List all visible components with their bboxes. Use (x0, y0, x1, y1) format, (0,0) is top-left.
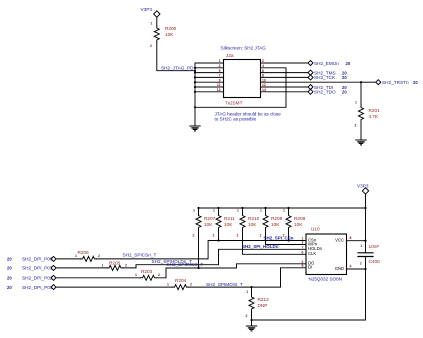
wire R211 down to CSn line (218, 230, 220, 241)
svg-text:20: 20 (7, 276, 12, 281)
svg-text:10K: 10K (248, 222, 257, 227)
net label SH2_SPIMISO_T (167, 262, 204, 267)
node GND joins cap drop (364, 268, 366, 270)
node MOSI to R212 (250, 286, 252, 288)
node ground return joins R212 (250, 319, 252, 321)
svg-text:13: 13 (217, 88, 221, 92)
port SH2_TDO (308, 89, 347, 94)
svg-text:SH2_DPI_P02: SH2_DPI_P02 (22, 276, 53, 281)
IC U10 SPI flash (306, 227, 347, 282)
power symbol V3P3 (bottom) (357, 184, 369, 195)
port SH2_DPI_P01 (7, 265, 56, 270)
node bus row3 (194, 72, 196, 74)
svg-text:SH2_SPIMOSI_T: SH2_SPIMOSI_T (206, 282, 243, 287)
svg-text:2: 2 (237, 233, 239, 237)
resistor R204 (series MOSI) (167, 278, 192, 290)
ground (SPI) (246, 326, 257, 331)
resistor R205 (series HOLDn) (102, 261, 128, 271)
svg-text:2: 2 (158, 273, 160, 277)
wire ground return to SPI ground (252, 269, 366, 320)
node bus row5 (194, 81, 196, 83)
svg-text:R209: R209 (294, 216, 306, 221)
wire V3P3 down to VCC pin (365, 194, 367, 241)
ground (TRSTn) (355, 140, 366, 145)
svg-text:SH2_SPICSn_T: SH2_SPICSn_T (123, 253, 157, 258)
port SH2_TCK (308, 75, 347, 80)
svg-text:1: 1 (213, 209, 215, 213)
svg-text:2: 2 (193, 233, 195, 237)
wire bus to ground (194, 107, 196, 126)
svg-text:3: 3 (219, 64, 221, 68)
svg-text:1: 1 (102, 263, 104, 267)
resistor R203 (series MISO) (135, 269, 160, 281)
wire J2a pin3 stub (195, 67, 224, 69)
svg-text:2: 2 (360, 261, 362, 265)
svg-text:9: 9 (219, 78, 221, 82)
svg-text:1: 1 (283, 209, 285, 213)
svg-text:R208: R208 (271, 216, 283, 221)
power symbol V3P3 (top) (141, 7, 161, 17)
svg-text:7: 7 (302, 246, 304, 250)
svg-text:R206: R206 (78, 250, 90, 255)
wire pin8 to TCK port (261, 76, 309, 78)
svg-text:20: 20 (7, 257, 12, 262)
svg-text:SH2_TRSTn: SH2_TRSTn (382, 80, 409, 85)
svg-text:1: 1 (193, 209, 195, 213)
svg-text:6: 6 (302, 251, 304, 255)
svg-text:10K: 10K (165, 32, 174, 37)
svg-text:20: 20 (346, 61, 351, 66)
pin numbers U10 (302, 236, 352, 268)
svg-text:SH2_DPI_P00: SH2_DPI_P00 (22, 257, 53, 262)
svg-text:V3P3: V3P3 (141, 7, 153, 12)
port SH2_EMUn (308, 61, 351, 66)
svg-text:5: 5 (219, 69, 221, 73)
svg-text:10nF: 10nF (369, 244, 380, 249)
text JTAG placement note (215, 111, 282, 121)
wire pull-up rail (199, 207, 366, 209)
svg-text:SH2_DPI_P03: SH2_DPI_P03 (22, 285, 53, 290)
svg-text:SH2_EMUn: SH2_EMUn (314, 61, 339, 66)
node V3P3 rail junction (364, 207, 366, 209)
node TRSTn junction (360, 81, 362, 83)
wire pin12 to TDI port (261, 86, 309, 88)
node bus row4 (194, 76, 196, 78)
connector J2a 7x2SMT JTAG header (224, 53, 261, 105)
wire R207 down to MISO line (198, 230, 200, 268)
port SH2_DPI_P03 (7, 285, 56, 290)
node rail R211 (217, 207, 219, 209)
svg-text:1: 1 (355, 100, 357, 104)
svg-text:C400: C400 (369, 259, 381, 264)
resistor R211 10K (pull-up CSn) (213, 208, 236, 237)
port SH2_DPI_P02 (7, 275, 56, 280)
node bus row7 (194, 91, 196, 93)
node rail R210 (241, 207, 243, 209)
svg-text:SH2_TDO: SH2_TDO (314, 90, 336, 95)
svg-text:SH2_DPI_P01: SH2_DPI_P01 (22, 266, 53, 271)
svg-text:SH2_SPI_CSn: SH2_SPI_CSn (264, 236, 294, 241)
wire J2a pin1 stub (195, 62, 224, 64)
svg-text:5: 5 (302, 264, 304, 268)
node R209 on CSn line (287, 239, 289, 241)
resistor R210 10K (pull-up CLK) (237, 208, 260, 237)
wire R209 down to CSn line (288, 230, 290, 241)
svg-text:3: 3 (302, 241, 304, 245)
pin numbers J2a right column (262, 59, 266, 92)
wire: JTAG left pin bus (194, 63, 196, 107)
svg-text:R211: R211 (224, 216, 235, 221)
resistor R208 10K (pull-up WPn) (260, 208, 283, 237)
wire P03 to R204 (56, 286, 173, 288)
wire J2a pin13 stub (195, 91, 224, 93)
svg-text:R203: R203 (141, 269, 153, 274)
net label SH2_JTAG_PD (161, 66, 194, 71)
port SH2_TDI (308, 85, 347, 90)
svg-text:DNP: DNP (258, 303, 268, 308)
svg-text:1: 1 (237, 209, 239, 213)
wire cap to GND stub (365, 257, 367, 270)
node rail R209 (287, 207, 289, 209)
resistor R209 10K (pull-up CSn 2) (283, 208, 306, 237)
wire VCC stub (347, 240, 366, 242)
svg-text:1: 1 (135, 273, 137, 277)
svg-text:DI: DI (308, 265, 312, 270)
svg-text:R205: R205 (109, 261, 121, 266)
wire R208 down to WPn line (266, 230, 307, 245)
svg-text:20: 20 (413, 80, 418, 85)
node: wrap joins bus above ground (194, 106, 196, 108)
node R207 on MISO line (197, 267, 199, 269)
port SH2_TRSTn (376, 80, 419, 85)
svg-text:J2a: J2a (226, 53, 234, 58)
net label SH2_SPIMOSI_T (206, 282, 243, 287)
resistor R212 DNP (246, 290, 270, 318)
svg-text:8: 8 (350, 236, 352, 240)
svg-text:R201: R201 (369, 108, 381, 113)
wire R212 to ground (251, 311, 253, 326)
svg-text:4: 4 (350, 265, 352, 269)
wire P01 to R205 (56, 267, 107, 269)
capacitor C400 10nF (358, 244, 380, 265)
net label SH2_SPI_CSn (264, 236, 294, 241)
pin names U10 (308, 237, 344, 270)
node rail R208 (264, 207, 266, 209)
net label SH2_SPI_HOLDn (242, 244, 279, 249)
node R211 on CSn line (217, 239, 219, 241)
svg-text:SH2_JTAG_PD: SH2_JTAG_PD (161, 66, 194, 71)
svg-text:V3P3: V3P3 (357, 184, 369, 189)
node bus row2 (194, 67, 196, 69)
svg-text:Silkscreen: SH2 JTAG: Silkscreen: SH2 JTAG (221, 46, 267, 51)
svg-text:2: 2 (246, 314, 248, 318)
svg-text:SH2_SPI_HOLDn: SH2_SPI_HOLDn (242, 244, 279, 249)
svg-text:20: 20 (7, 285, 12, 290)
svg-text:R204: R204 (175, 278, 187, 283)
svg-text:1: 1 (151, 21, 153, 25)
svg-text:2: 2 (150, 44, 152, 48)
pin numbers J2a left column (217, 59, 221, 92)
wire HOLDn_T staircase to chip HOLDn (123, 249, 306, 268)
net label SH2_SPICSn_T (123, 253, 157, 258)
svg-text:10K: 10K (204, 222, 213, 227)
svg-text:R207: R207 (204, 216, 216, 221)
svg-text:2: 2 (355, 124, 357, 128)
svg-text:R200: R200 (165, 26, 177, 31)
wire MOSI_T to chip DI (189, 268, 307, 287)
port SH2_TMS (308, 70, 347, 75)
resistor R206 (series CSn) (75, 250, 100, 261)
port SH2_DPI_P00 (7, 256, 56, 261)
svg-text:11: 11 (217, 83, 221, 87)
svg-text:CLK: CLK (308, 251, 316, 256)
wire pin4 to ground wrap (195, 68, 286, 108)
wire pin2 to EMU port (261, 62, 309, 64)
svg-text:20: 20 (342, 75, 347, 80)
svg-text:2: 2 (190, 282, 192, 286)
svg-text:1: 1 (75, 254, 77, 258)
wire TRSTn junction down to R201 (360, 82, 362, 105)
svg-text:4.7K: 4.7K (369, 114, 380, 119)
wire GND stub (347, 268, 366, 270)
ground (JTAG) (189, 126, 200, 131)
wire J2a pin11 stub (195, 86, 224, 88)
svg-text:20: 20 (342, 90, 347, 95)
resistor R207 10K (pull-up DO) (193, 208, 216, 237)
svg-text:U10: U10 (311, 227, 320, 232)
net label SH2_SPIHOLDn_T (152, 259, 193, 264)
svg-text:1: 1 (260, 209, 262, 213)
wire pin14 to TDO port (261, 91, 309, 93)
svg-text:to SH2C as possible: to SH2C as possible (215, 116, 257, 121)
node: JTAG_PD joins left bus (194, 70, 196, 72)
svg-text:7: 7 (219, 74, 221, 78)
svg-text:N25Q032 SO8N: N25Q032 SO8N (309, 276, 342, 281)
svg-text:1: 1 (246, 290, 248, 294)
node rail R207 (197, 207, 199, 209)
svg-text:20: 20 (7, 266, 12, 271)
text silkscreen note (221, 46, 267, 51)
svg-text:1: 1 (167, 282, 169, 286)
wire J2a pin9 stub (195, 81, 224, 83)
svg-text:R210: R210 (248, 216, 260, 221)
svg-text:2: 2 (125, 263, 127, 267)
wire P02 to R203 (56, 277, 141, 279)
wire J2a pin7 stub (195, 76, 224, 78)
wire R200 down to JTAG_PD net (157, 42, 195, 71)
node bus row6 (194, 86, 196, 88)
svg-text:2: 2 (98, 254, 100, 258)
wire P00 to R206 (56, 258, 81, 260)
wire MISO_T staircase to chip DO (157, 264, 307, 278)
svg-text:1: 1 (360, 244, 362, 248)
wire MOSI down to R212 (251, 287, 253, 295)
svg-text:GND: GND (335, 266, 344, 271)
svg-text:10K: 10K (294, 222, 303, 227)
svg-text:SH2_SPIMISO_T: SH2_SPIMISO_T (167, 262, 204, 267)
node VCC joins V3P3 drop (364, 240, 366, 242)
wire pin10 to TRSTn net (261, 81, 362, 83)
wire CSn_T staircase to chip CSn (97, 241, 307, 259)
wire pin6 to TMS port (261, 72, 309, 74)
wire V3P3 to resistor R200 (156, 17, 158, 26)
wire TRSTn to port (361, 81, 376, 83)
resistor R201 4.7K (355, 100, 381, 127)
svg-text:2: 2 (260, 233, 262, 237)
svg-text:7x2SMT: 7x2SMT (225, 100, 243, 105)
wire R201 to ground (360, 122, 362, 140)
resistor R200 10K (150, 21, 177, 48)
svg-text:VCC: VCC (335, 238, 344, 243)
svg-text:2: 2 (213, 233, 215, 237)
svg-text:SH2_TCK: SH2_TCK (314, 75, 336, 80)
svg-text:1: 1 (219, 59, 221, 63)
wire R210 down to CLK line (243, 230, 307, 254)
svg-text:10K: 10K (224, 222, 233, 227)
wire J2a pin5 stub (195, 72, 224, 74)
svg-text:R212: R212 (258, 297, 270, 302)
svg-text:10K: 10K (271, 222, 280, 227)
wire V3P3 drop to cap C400 (365, 241, 367, 253)
